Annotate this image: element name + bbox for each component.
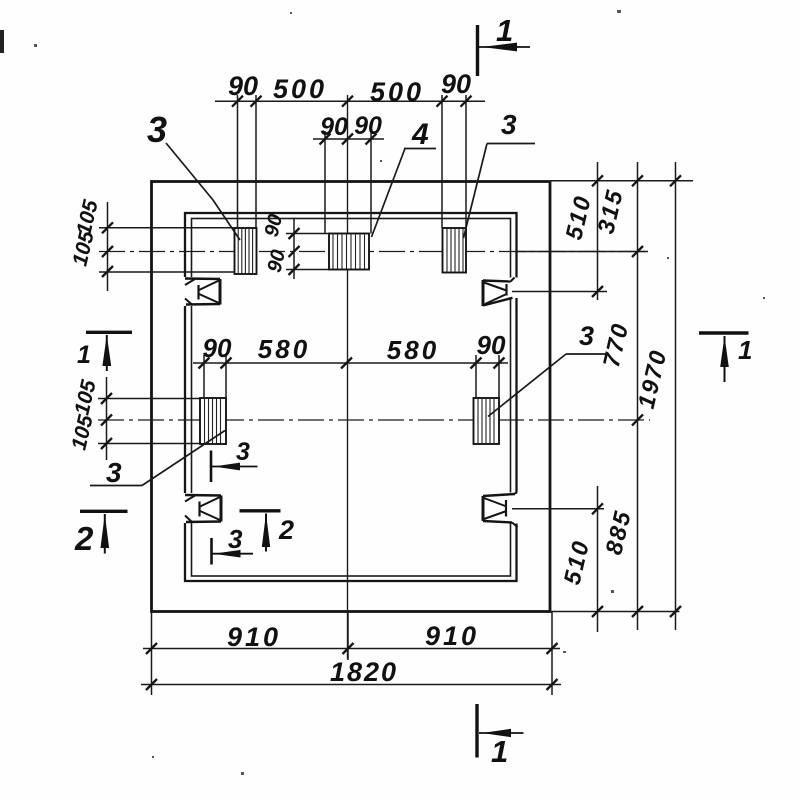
svg-text:1820: 1820 bbox=[330, 657, 398, 687]
svg-text:1: 1 bbox=[738, 335, 752, 365]
callout 3 mid-right with leader bbox=[488, 321, 608, 417]
left mid dimension chain 105 105 bbox=[98, 377, 200, 460]
top center dimension line 90 90 bbox=[313, 131, 384, 234]
svg-text:2: 2 bbox=[74, 520, 94, 557]
left top dimension chain 105 105 bbox=[99, 202, 235, 291]
scan artifact left edge bbox=[0, 30, 4, 53]
svg-text:3: 3 bbox=[106, 457, 122, 488]
anchor bracket bottom-left bbox=[183, 493, 222, 523]
svg-text:1: 1 bbox=[77, 341, 91, 369]
svg-text:910: 910 bbox=[227, 622, 281, 652]
svg-text:4: 4 bbox=[411, 118, 429, 151]
svg-text:90: 90 bbox=[320, 113, 348, 141]
svg-text:90: 90 bbox=[354, 112, 382, 140]
section marker 3 interior lower bbox=[212, 524, 254, 565]
svg-text:910: 910 bbox=[425, 621, 479, 651]
svg-text:500: 500 bbox=[370, 77, 424, 107]
horizontal centerline top plates bbox=[99, 251, 648, 253]
svg-text:90: 90 bbox=[228, 71, 258, 101]
top dimension line 90 500 500 90 bbox=[215, 95, 485, 228]
section marker 1 right bbox=[699, 333, 752, 382]
callout 3 bottom-left with leader bbox=[90, 431, 225, 489]
horizontal centerline middle bbox=[98, 419, 650, 421]
vertical centerline bbox=[347, 95, 349, 659]
anchor bracket top-left bbox=[183, 277, 221, 306]
section marker 1 left bbox=[77, 332, 132, 371]
bottom dimension lines 910 910 1820 bbox=[141, 612, 561, 696]
embedded plate 3 mid-left bbox=[200, 398, 226, 444]
inner wall inner line bbox=[192, 219, 511, 577]
svg-text:1: 1 bbox=[496, 13, 513, 48]
svg-text:3: 3 bbox=[236, 438, 250, 466]
section marker 2 interior bbox=[240, 511, 295, 552]
svg-text:2: 2 bbox=[278, 515, 294, 545]
section marker 3 interior upper bbox=[211, 438, 258, 482]
section marker 2 left bbox=[74, 511, 128, 557]
svg-text:1: 1 bbox=[491, 734, 508, 769]
left vertical 90 90 chain beside plate 4 bbox=[286, 218, 329, 280]
svg-text:90: 90 bbox=[203, 333, 232, 363]
svg-text:500: 500 bbox=[273, 74, 327, 104]
callout 3 top-right with leader bbox=[464, 109, 536, 238]
anchor bracket top-right bbox=[481, 278, 519, 308]
svg-text:90: 90 bbox=[441, 69, 471, 99]
embedded plate 3 mid-right bbox=[474, 398, 500, 444]
section marker 1 bottom bbox=[477, 704, 524, 769]
embedded plate 3 top-right bbox=[443, 228, 467, 273]
callout 3 top-left with leader bbox=[147, 109, 240, 240]
right dimension lines 510 315 770 1970 885 510 bbox=[512, 162, 693, 632]
svg-text:3: 3 bbox=[579, 321, 594, 351]
embedded plate 4 top-center bbox=[329, 234, 369, 270]
svg-text:3: 3 bbox=[228, 524, 243, 554]
svg-text:3: 3 bbox=[147, 109, 167, 150]
svg-text:580: 580 bbox=[387, 335, 439, 365]
inner wall outer line bbox=[185, 213, 517, 581]
callout 4 with leader bbox=[372, 118, 437, 237]
outer wall rectangle bbox=[152, 182, 551, 612]
middle dimension line 90 580 580 90 bbox=[193, 355, 508, 398]
anchor bracket bottom-right bbox=[481, 493, 519, 528]
section marker 1 top bbox=[478, 13, 531, 76]
svg-text:90: 90 bbox=[477, 330, 506, 360]
svg-text:580: 580 bbox=[258, 334, 310, 364]
svg-text:3: 3 bbox=[501, 109, 517, 140]
embedded plate 3 top-left bbox=[235, 228, 257, 274]
